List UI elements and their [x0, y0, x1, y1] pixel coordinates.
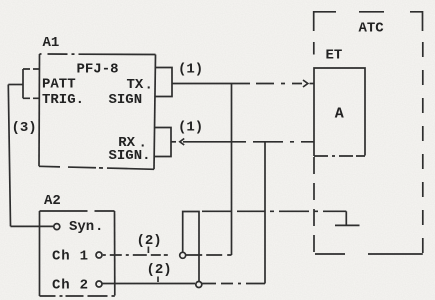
svg-text:(3): (3)	[12, 120, 37, 136]
svg-text:Ch 2: Ch 2	[52, 278, 89, 294]
svg-text:TX: TX	[127, 77, 144, 93]
svg-text:(1): (1)	[178, 62, 203, 78]
svg-text:PATT: PATT	[42, 77, 76, 93]
svg-text:A: A	[335, 106, 344, 123]
svg-text:.: .	[145, 78, 153, 94]
svg-text:(1): (1)	[178, 120, 203, 136]
svg-text:SIGN.: SIGN.	[109, 148, 151, 164]
svg-text:SIGN: SIGN	[109, 92, 143, 108]
svg-text:Syn: Syn	[69, 219, 94, 235]
svg-text:ATC: ATC	[359, 20, 385, 36]
svg-text:(2): (2)	[147, 262, 172, 278]
svg-text:TRIG.: TRIG.	[42, 92, 84, 108]
svg-text:.: .	[95, 219, 103, 235]
svg-text:(2): (2)	[137, 233, 162, 249]
svg-text:Ch 1: Ch 1	[52, 249, 89, 265]
svg-text:PFJ-8: PFJ-8	[77, 62, 119, 78]
svg-text:A1: A1	[43, 35, 60, 51]
svg-text:A2: A2	[44, 193, 61, 209]
svg-text:ET: ET	[326, 47, 343, 63]
